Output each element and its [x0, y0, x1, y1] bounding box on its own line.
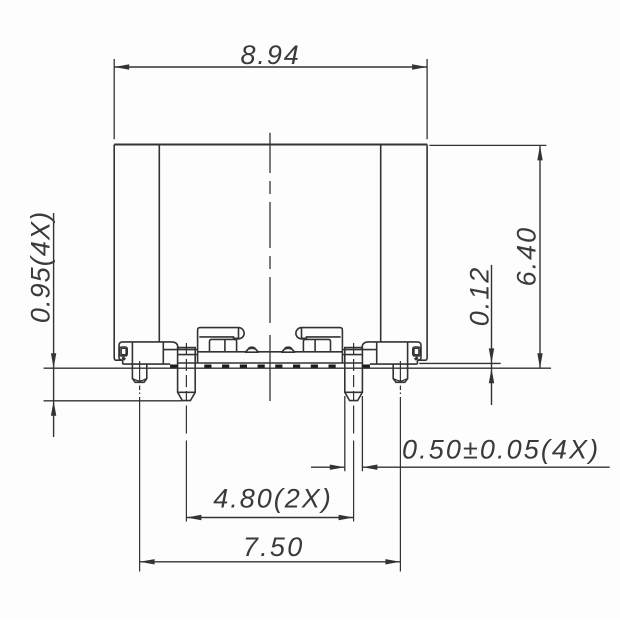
right ear inner line (to pin) [343, 349, 377, 351]
left peg through edge [131, 342, 133, 364]
band bump left [245, 347, 258, 352]
teeth row [170, 365, 370, 368]
dimension 0.50 line left [311, 466, 345, 468]
svg-text:0.95(4X): 0.95(4X) [25, 211, 55, 323]
right pin [345, 348, 363, 401]
left latch bar inner line [199, 337, 238, 338]
body outline top edge [114, 144, 427, 146]
band bump right [282, 347, 295, 352]
right latch lower divider [314, 339, 316, 351]
left pin centerline [185, 343, 187, 522]
dimension 6.40 top extension [429, 144, 546, 146]
right pin tip line [345, 391, 363, 393]
left clip outer [120, 347, 128, 356]
left ear divider [162, 342, 164, 364]
svg-text:7.50: 7.50 [243, 532, 305, 562]
right ear outline [362, 342, 421, 360]
shell inner wall right [380, 145, 382, 342]
right latch cap chord [301, 328, 303, 339]
right clip outer [413, 347, 421, 356]
right latch bar inner line [302, 337, 341, 338]
pin bottom extension line [44, 400, 182, 402]
dimension 0.95 line [53, 213, 55, 437]
dimension 0.12 leader lower [491, 368, 493, 405]
right latch lower rect [303, 339, 330, 351]
svg-text:0.12: 0.12 [465, 266, 495, 327]
left latch lower divider [224, 339, 226, 351]
left pin shoulder line [178, 354, 198, 356]
right peg inner arc [394, 379, 406, 381]
left latch cap chord [238, 328, 240, 339]
dimension 0.12 leader upper [491, 265, 493, 368]
left latch lower rect [210, 339, 237, 351]
right ear bottom edge [370, 363, 418, 365]
band top line [198, 351, 343, 353]
svg-text:0.50±0.05(4X): 0.50±0.05(4X) [402, 434, 600, 464]
right clip wedge [415, 357, 418, 359]
left peg inner arc [133, 379, 145, 381]
body right edge [426, 145, 429, 361]
dimension 7.50 line [140, 561, 401, 563]
left clip inner [121, 348, 126, 354]
left ear outline [119, 342, 178, 360]
dimension 0.50 extension lines [345, 396, 363, 471]
right pin shoulder line [343, 354, 363, 356]
shell bottom edge extension (0.12 upper line) [419, 362, 500, 364]
left latch bar [198, 328, 245, 363]
band bump right inner [285, 347, 291, 350]
dimension 0.50 line right [362, 466, 609, 468]
right pin centerline [353, 343, 355, 522]
left peg [132, 364, 146, 382]
left pin [178, 348, 196, 401]
left pin tip line [178, 391, 196, 393]
right ear step [417, 360, 426, 364]
body left edge [113, 145, 116, 361]
left ear step [115, 360, 123, 364]
right peg [393, 364, 407, 382]
right peg through edge [407, 342, 409, 364]
band bump left inner [249, 347, 255, 350]
svg-text:6.40: 6.40 [512, 226, 542, 287]
arrowheads [51, 64, 543, 564]
left ear inner line (to pin) [163, 349, 197, 351]
left peg centerline [139, 361, 141, 572]
seating plane line [44, 367, 551, 369]
right ear divider [376, 342, 378, 364]
svg-text:4.80(2X): 4.80(2X) [213, 484, 333, 514]
dimension 8.94 extension lines [114, 59, 427, 139]
center line [269, 133, 271, 401]
dimension 6.40 line [539, 145, 541, 368]
dimension 8.94 line [114, 66, 427, 68]
right clip inner [414, 348, 419, 354]
right peg centerline [399, 361, 401, 572]
dimension 4.80 line [186, 517, 353, 519]
svg-text:8.94: 8.94 [241, 40, 301, 70]
right latch bar [296, 328, 343, 363]
shell inner wall left [158, 145, 160, 342]
left ear bottom edge [123, 363, 171, 365]
left clip wedge [122, 357, 125, 359]
band bottom line [178, 362, 363, 364]
